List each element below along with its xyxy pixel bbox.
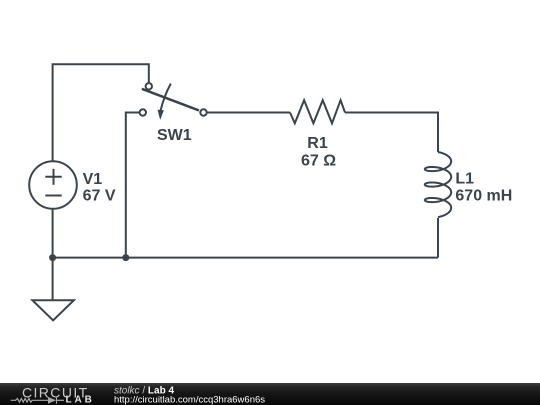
svg-text:LAB: LAB <box>66 395 95 405</box>
svg-text:R1: R1 <box>307 135 328 152</box>
svg-text:670 mH: 670 mH <box>455 187 512 204</box>
svg-text:http://circuitlab.com/ccq3hra6: http://circuitlab.com/ccq3hra6w6n6s <box>114 394 265 405</box>
svg-text:67 V: 67 V <box>83 187 116 204</box>
svg-text:L1: L1 <box>455 170 474 187</box>
svg-text:SW1: SW1 <box>157 127 192 144</box>
svg-text:V1: V1 <box>83 171 103 188</box>
svg-text:67 Ω: 67 Ω <box>301 153 336 170</box>
